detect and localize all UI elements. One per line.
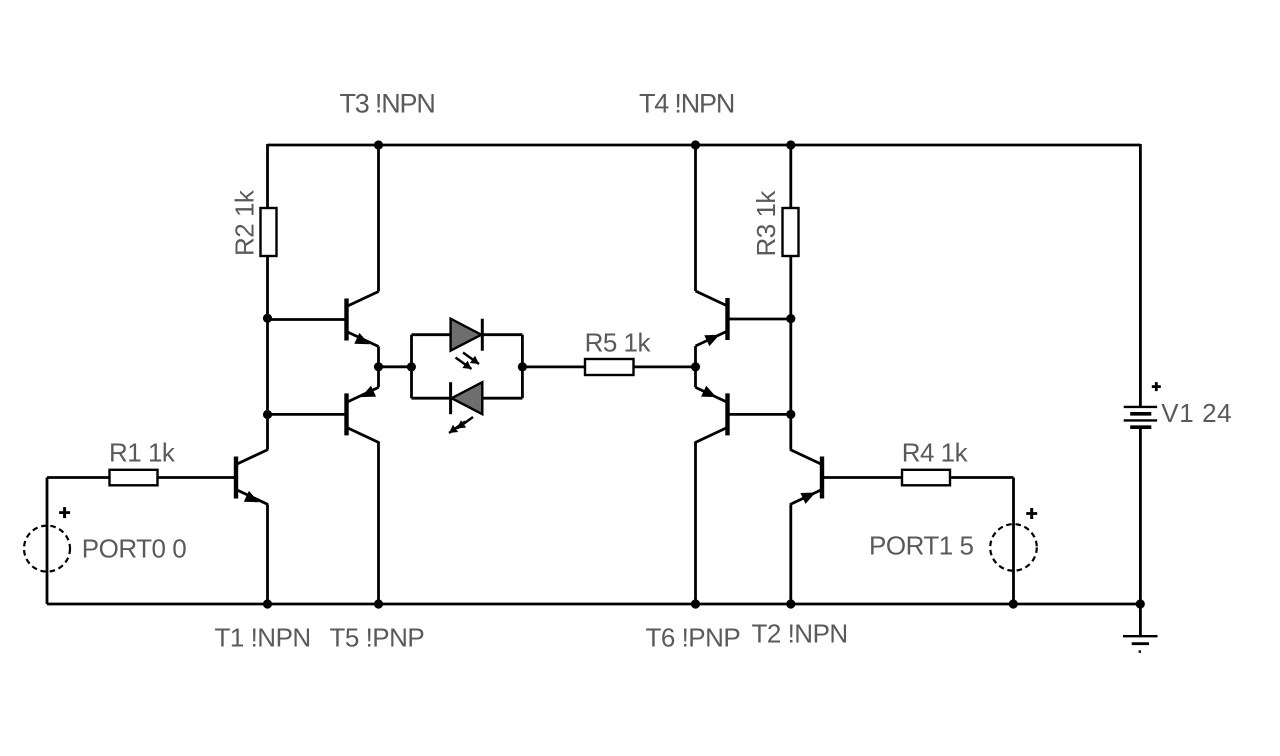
LED D1 emission arrows: [456, 353, 480, 370]
transistor T2 (NPN): [790, 450, 822, 505]
svg-text:V1 24: V1 24: [1161, 398, 1232, 428]
node LED right node: [518, 362, 527, 371]
svg-text:PORT1 5: PORT1 5: [869, 531, 973, 561]
wire T4 base wire: [730, 318, 791, 321]
wire T6 collector drop: [694, 441, 697, 604]
svg-text:R2 1k: R2 1k: [229, 189, 259, 256]
node mid rail left (T3/T5 emitters): [374, 362, 383, 371]
wire left rail (R2 bottom to T1 collector elbow): [266, 256, 269, 450]
wire R1 to T1 base: [158, 476, 235, 479]
wire T2 base to R4: [824, 476, 902, 479]
svg-text:R5 1k: R5 1k: [585, 328, 652, 358]
svg-text:T2 !NPN: T2 !NPN: [752, 619, 848, 649]
top supply wire: [268, 144, 1141, 147]
node left rail / T5 base: [263, 410, 272, 419]
LED D2 (lower, pointing left): [451, 382, 483, 414]
transistor T5 (PNP): [347, 386, 379, 443]
wire LED D2 cathode wire: [412, 397, 451, 400]
wire battery to ground node: [1139, 429, 1142, 635]
svg-text:T4 !NPN: T4 !NPN: [639, 89, 734, 119]
LED D2 emission arrows: [449, 417, 473, 433]
wire T6 emitter riser: [694, 367, 697, 388]
resistor R1: [110, 470, 158, 486]
battery V1: [1124, 407, 1157, 427]
wire T5 emitter riser: [377, 367, 380, 388]
wire T1 collector diag riser: [266, 448, 269, 451]
resistor R4: [902, 470, 950, 486]
node bottom / T2 emitter: [786, 599, 795, 608]
wire R4 to PORT1 corner: [950, 476, 1014, 479]
svg-text:R3 1k: R3 1k: [751, 190, 781, 257]
wire PORT0 vertical through source: [46, 478, 49, 605]
node bottom / PORT1: [1009, 599, 1018, 608]
node LED left node: [407, 362, 416, 371]
battery V1 plus sign: [1152, 382, 1161, 391]
wire PORT0 to R1: [47, 476, 110, 479]
node right rail / T6 base: [786, 410, 795, 419]
wire T5 base wire: [268, 413, 345, 416]
node bottom / T6 collector: [691, 599, 700, 608]
LED D1 (upper, pointing right): [451, 319, 483, 351]
wire T2 emitter drop: [789, 505, 792, 605]
svg-text:T6 !PNP: T6 !PNP: [646, 623, 741, 653]
PORT0 plus sign: [59, 507, 70, 518]
voltage source PORT1: [990, 524, 1037, 571]
node bottom / battery-ground: [1136, 599, 1145, 608]
PORT1 plus sign: [1026, 508, 1037, 519]
transistor T1 (NPN): [236, 450, 268, 505]
node top wire / T4 collector: [691, 140, 700, 149]
node mid rail right (T4/T6 emitters): [691, 362, 700, 371]
wire T3 emitter drop: [377, 347, 380, 367]
voltage source PORT0: [24, 526, 70, 572]
wire LED D1 cathode wire: [482, 333, 522, 336]
wire right rail upper (top wire to R3): [789, 144, 792, 208]
wire left rail upper (top wire to R2): [266, 144, 269, 208]
wire LED right node to R5: [522, 365, 585, 368]
wire T3 base wire: [268, 318, 345, 321]
wire LED left branch vertical: [410, 335, 413, 399]
node top wire / T3 collector: [374, 140, 383, 149]
wire LED D2 anode wire: [482, 397, 522, 400]
transistor T3 (NPN): [347, 292, 379, 347]
svg-text:R1 1k: R1 1k: [109, 438, 176, 468]
wire LED right branch vertical: [521, 335, 524, 399]
wire bottom ground rail: [47, 603, 1140, 606]
node bottom / T5 collector: [374, 599, 383, 608]
ground: [1123, 636, 1158, 653]
wire T3 collector riser: [377, 145, 380, 292]
node left rail / T3 base: [263, 314, 272, 323]
svg-text:T3 !NPN: T3 !NPN: [340, 89, 435, 119]
wire R5 to right emitter node: [634, 365, 696, 368]
wire T1 emitter drop: [266, 505, 269, 605]
transistor T6 (PNP): [696, 386, 728, 443]
svg-text:PORT0 0: PORT0 0: [82, 533, 186, 563]
transistor T4 (NPN): [696, 291, 728, 346]
wire mid rail to LED left node: [379, 365, 412, 368]
node bottom / T1 emitter: [263, 599, 272, 608]
resistor R2: [261, 208, 277, 256]
node right rail / T4 base: [786, 314, 795, 323]
svg-text:R4 1k: R4 1k: [902, 437, 969, 467]
wire T5 collector drop: [377, 441, 380, 604]
wire PORT1 vertical through source: [1012, 478, 1015, 605]
svg-text:T1 !NPN: T1 !NPN: [215, 623, 311, 653]
node top wire / R3: [786, 140, 795, 149]
wire LED D1 anode wire: [412, 333, 451, 336]
wire right rail (R3 bottom to T2 collector elbow): [789, 256, 792, 450]
resistor R3: [783, 208, 799, 256]
wire T4 collector riser: [694, 145, 697, 291]
wire T6 base wire: [730, 413, 791, 416]
svg-text:T5 !PNP: T5 !PNP: [330, 623, 425, 653]
wire T4 emitter drop: [694, 346, 697, 367]
wire right rail from top wire to battery: [1139, 144, 1142, 406]
resistor R5: [585, 359, 634, 375]
